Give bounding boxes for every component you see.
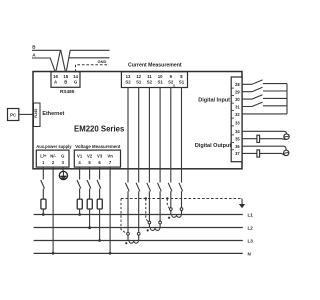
switch DI pin30 — [252, 95, 263, 99]
CT3 polarity dot — [168, 217, 170, 219]
wire DI pin28 — [243, 83, 287, 86]
svg-text:S1: S1 — [136, 79, 142, 84]
Aux power supply terminal block — [36, 150, 69, 167]
svg-text:35: 35 — [235, 136, 240, 141]
switch V1 — [77, 180, 81, 189]
switch CT pin8 — [179, 183, 183, 192]
switch V3 — [97, 180, 101, 189]
CT1 polarity dot — [125, 242, 127, 244]
wire CT pin13 down — [127, 88, 129, 241]
svg-text:RJ45: RJ45 — [34, 109, 38, 118]
svg-text:36: 36 — [235, 144, 240, 149]
earth arrow of dashed bus — [241, 199, 243, 205]
svg-text:13: 13 — [126, 74, 131, 79]
junction dot dashed CT3 — [166, 197, 168, 199]
wire CT pin9 down — [170, 88, 172, 215]
svg-text:Digital Output: Digital Output — [195, 143, 232, 149]
svg-text:A: A — [54, 79, 57, 84]
fuse F4 — [97, 199, 102, 209]
junction dot pin1-L1 — [42, 213, 45, 216]
wire fuse F2 to L1 — [79, 209, 81, 215]
svg-text:16: 16 — [53, 74, 58, 79]
wire fuse F3 to L2 — [89, 209, 91, 228]
switch CT pin10 — [158, 183, 162, 192]
dashed drop CT3 — [167, 199, 169, 209]
svg-text:Digital Input: Digital Input — [198, 97, 230, 103]
wire A (RS485 bus) — [32, 58, 55, 72]
svg-text:Vn: Vn — [107, 154, 113, 159]
svg-text:11: 11 — [147, 74, 152, 79]
wire fuse F1 to L1 — [42, 209, 44, 215]
Digital IO terminal strip — [231, 77, 242, 162]
svg-text:N/-: N/- — [50, 154, 56, 159]
switch CT pin11 — [147, 183, 151, 192]
wire DI pin29 — [243, 90, 287, 93]
protective earth symbol below pin 3 — [59, 167, 67, 179]
svg-text:Voltage Measurement: Voltage Measurement — [75, 144, 121, 149]
CT2 secondary coil on L2 — [150, 228, 160, 231]
CT2 terminals (circles) — [148, 221, 151, 224]
svg-text:L2: L2 — [248, 226, 254, 231]
fuse F2 — [77, 199, 82, 209]
svg-text:V3: V3 — [97, 154, 103, 159]
svg-text:L1: L1 — [248, 213, 254, 218]
svg-text:I1: I1 — [173, 84, 176, 88]
dashed drop CT2 — [146, 199, 149, 223]
wire DI right bus — [286, 84, 288, 114]
bus line L2 — [34, 227, 243, 229]
PC box — [8, 109, 19, 121]
bus line L3 — [34, 240, 243, 242]
wire DI common pin32 — [243, 113, 287, 115]
svg-text:33: 33 — [235, 120, 240, 125]
wire B (RS485 bus) — [32, 50, 65, 72]
CT3 terminals (circles) — [169, 208, 172, 211]
svg-text:S1: S1 — [157, 79, 163, 84]
svg-text:14: 14 — [73, 74, 78, 79]
switch CT pin13 — [125, 183, 129, 192]
svg-text:S1: S1 — [179, 79, 185, 84]
switch V2 — [87, 180, 91, 189]
svg-text:V2: V2 — [87, 154, 93, 159]
junction dot V3-L3 — [98, 239, 101, 242]
bus line N — [34, 252, 243, 254]
wire V2 down — [89, 167, 91, 199]
svg-text:G: G — [61, 154, 64, 159]
junction dot pin2-N — [52, 252, 55, 255]
AC source circle DO1 — [284, 134, 289, 139]
CT3 secondary coil on L1 — [172, 215, 182, 218]
switch CT pin12 — [136, 183, 140, 192]
svg-text:B: B — [64, 79, 67, 84]
fuse DO1 — [257, 135, 260, 142]
junction dot V1-L1 — [78, 213, 81, 216]
switch DI pin31 — [252, 102, 263, 106]
switch Q aux L — [41, 180, 45, 189]
svg-text:Ethernet: Ethernet — [42, 111, 64, 117]
wire fuse F4 to L3 — [99, 209, 101, 241]
switch DI pin28 — [252, 80, 263, 84]
bus line L1 — [34, 214, 243, 216]
svg-text:Aux.power supply: Aux.power supply — [36, 144, 72, 149]
svg-text:34: 34 — [235, 129, 240, 134]
dashed drop CT1 — [121, 199, 127, 234]
wire PC to RJ45 — [19, 113, 34, 115]
wire pin16 rising stub — [56, 51, 61, 72]
CT2 polarity dot — [147, 229, 149, 231]
svg-text:Current Measurement: Current Measurement — [128, 63, 182, 69]
dashed GND wire from pin14 — [76, 65, 110, 72]
wire continuation lower stub — [69, 57, 110, 59]
fuse F3 — [87, 199, 92, 209]
CT1 terminals (circles) — [127, 232, 130, 235]
wire CT pin10 down — [159, 88, 161, 228]
junction dot dashed CT2 — [145, 197, 147, 199]
switch CT pin9 — [168, 183, 172, 192]
svg-text:15: 15 — [63, 74, 68, 79]
wire pin2 N/- down to N — [52, 167, 54, 253]
wire pin1 L/+ down — [42, 167, 44, 199]
Current Measurement terminal block — [121, 72, 187, 88]
wire DO pin34 — [243, 131, 287, 134]
svg-text:37: 37 — [235, 151, 240, 156]
Voltage Measurement terminal block — [74, 150, 120, 167]
svg-text:30: 30 — [235, 97, 240, 102]
svg-text:PC: PC — [10, 112, 16, 117]
switch DI pin29 — [252, 87, 263, 91]
wire DI pin30 — [243, 97, 287, 100]
wire CT pin8 down — [181, 88, 183, 215]
svg-text:10: 10 — [158, 74, 163, 79]
CT1 secondary coil on L3 — [129, 241, 139, 244]
fuse DO2 — [257, 150, 260, 157]
wire V3 down — [99, 167, 101, 199]
RJ45 port — [34, 103, 41, 127]
svg-text:GND: GND — [98, 59, 107, 64]
wire Vn down to N — [109, 167, 111, 253]
svg-text:EM220 Series: EM220 Series — [74, 124, 125, 133]
fuse F1 — [41, 199, 46, 209]
wire DO pin35 — [243, 138, 287, 141]
wire DO pin36 — [243, 146, 287, 150]
svg-text:V1: V1 — [77, 154, 83, 159]
wire DO pin37 — [243, 153, 287, 155]
wire CT pin12 down — [138, 88, 140, 241]
svg-text:28: 28 — [235, 82, 240, 87]
AC source circle DO2 — [284, 150, 289, 155]
wire CT pin11 down — [148, 88, 150, 228]
dashed earth bus for CT secondaries — [121, 198, 242, 200]
junction dot V2-L2 — [88, 226, 91, 229]
svg-text:L3: L3 — [248, 239, 254, 244]
meter body outline U1 EM220 — [33, 72, 242, 169]
wire DI pin31 — [243, 105, 287, 108]
svg-text:32: 32 — [235, 112, 240, 117]
svg-text:S2: S2 — [125, 79, 131, 84]
svg-text:S2: S2 — [147, 79, 153, 84]
svg-text:L/+: L/+ — [40, 154, 47, 159]
svg-text:12: 12 — [136, 74, 141, 79]
RS485 terminal block — [51, 72, 80, 88]
svg-text:RS485: RS485 — [60, 89, 75, 94]
junction dot Vn-N — [109, 252, 112, 255]
wire pin15 rising stub to continuation — [66, 50, 109, 72]
svg-text:31: 31 — [235, 105, 240, 110]
wire V1 down — [79, 167, 81, 199]
svg-text:29: 29 — [235, 90, 240, 95]
